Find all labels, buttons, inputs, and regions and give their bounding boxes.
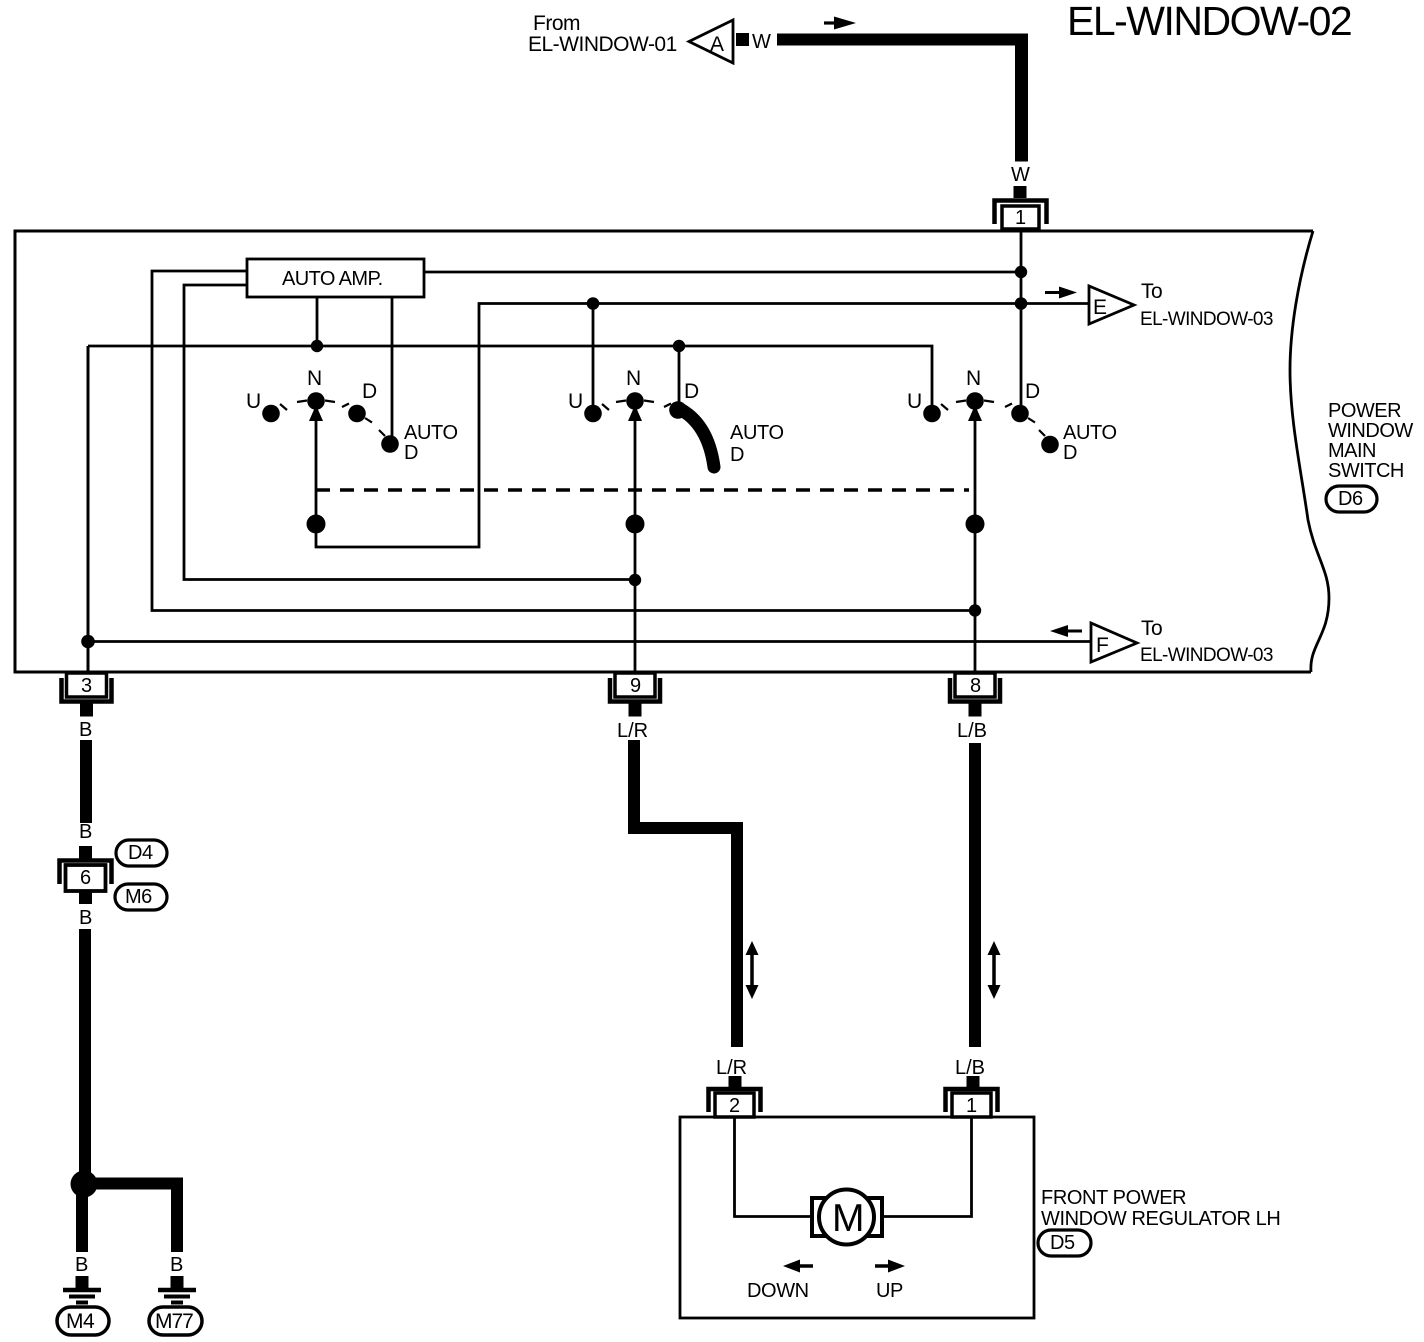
wire L/B (conn8 down to regulator conn1) [969,743,981,1047]
svg-text:D6: D6 [1338,488,1363,510]
junction dot bus346/auto-amp [311,340,323,352]
junction dot left vertical/y641 [81,635,95,649]
ground ref M4 [57,1307,109,1335]
svg-text:EL-WINDOW-01: EL-WINDOW-01 [528,33,677,56]
wire left vertical from bus down to connector 3 [87,346,90,673]
switch 2 pivot dot [626,515,645,534]
junction dot switch3 common/y610 [969,604,981,616]
svg-text:M4: M4 [66,1310,95,1333]
front power window regulator box [680,1117,1034,1318]
svg-text:W: W [1011,164,1030,186]
svg-text:WINDOW REGULATOR LH: WINDOW REGULATOR LH [1041,1208,1280,1230]
junction dot E-line/switch2-U [587,297,600,310]
switch 1 pivot dot [307,515,326,534]
svg-text:AUTO AMP.: AUTO AMP. [282,268,383,290]
svg-text:D: D [362,380,377,403]
svg-text:D: D [1025,380,1040,403]
ground M4 [63,1276,101,1303]
svg-text:B: B [79,719,92,741]
svg-text:2: 2 [729,1095,740,1117]
ground ref M77 [149,1307,202,1335]
connector 1 (power window main switch pin 1) [995,201,1047,225]
svg-text:AUTO: AUTO [404,422,458,444]
svg-text:F: F [1096,634,1109,657]
svg-text:D: D [404,442,418,464]
wire B splice right branch to M77 [92,1178,183,1190]
svg-text:FRONT POWER: FRONT POWER [1041,1187,1186,1209]
switch 3 (passenger window) [907,367,1117,464]
svg-text:AUTO: AUTO [1063,422,1117,444]
connector 8 (main switch pin 8) [950,673,1000,717]
connector ref D6 [1326,486,1377,512]
svg-text:N: N [626,367,641,390]
svg-text:8: 8 [970,675,981,697]
connector triangle A (from EL-WINDOW-01) [689,20,733,63]
svg-text:3: 3 [81,675,92,697]
svg-text:From: From [533,12,580,35]
svg-text:W: W [752,31,771,53]
svg-text:N: N [966,367,981,390]
wire switch 3 common down to connector 8 [974,412,977,673]
junction dot auto-amp/conn1 [1015,266,1027,278]
wire W (thick) from A to connector 1 [777,34,1028,46]
junction dot switch2 common/y579 [629,574,641,586]
svg-text:U: U [568,390,583,413]
junction dot bus346/switch2-D [673,340,685,352]
arrow (direction) at E [1045,291,1061,294]
connector ref M6 [115,884,167,910]
connector 3 (main switch pin 3) [62,673,112,717]
svg-text:B: B [79,821,92,843]
svg-text:EL-WINDOW-02: EL-WINDOW-02 [1067,0,1351,44]
svg-text:9: 9 [630,675,641,697]
svg-text:DOWN: DOWN [747,1280,809,1302]
arrow DOWN [747,1260,813,1303]
svg-text:M: M [832,1197,865,1240]
arrow (direction) at F [1066,630,1082,633]
svg-text:B: B [170,1254,183,1276]
svg-text:L/B: L/B [957,720,987,742]
auto amp box U1 [247,259,424,297]
wire B splice to M4 ground [76,1195,88,1252]
wire conn1 to motor [882,1117,972,1217]
wire switch1 common to E / switch2-U / conn1 node [316,304,1089,548]
svg-text:UP: UP [876,1280,903,1302]
svg-text:EL-WINDOW-03: EL-WINDOW-03 [1140,309,1273,330]
svg-text:L/B: L/B [955,1057,985,1079]
svg-text:POWER: POWER [1328,400,1401,422]
wire auto amp left upper, down and across to switch 3 common [152,271,975,611]
wire L/R (conn9 jog down to regulator conn2) [634,740,737,1047]
svg-text:1: 1 [966,1095,977,1117]
svg-text:N: N [307,367,322,390]
double arrow (window movement) L/R [746,941,759,999]
svg-text:AUTO: AUTO [730,422,784,444]
connector ref D5 [1038,1230,1091,1256]
wire y=641 to triangle F [88,640,1091,643]
mechanical link dashed line [316,488,969,492]
switch 3 pivot dot [966,515,985,534]
connector triangle E to EL-WINDOW-03 [1089,286,1134,324]
splice dot [71,1171,98,1198]
switch 2 (shown in AUTO-D position, thick wiper arc) [568,367,784,467]
svg-text:D: D [730,444,744,466]
connector 6 stub top [79,846,92,859]
svg-text:WINDOW: WINDOW [1328,420,1413,442]
wire auto amp bottom to bus y=346 [316,297,319,346]
connector 1 (regulator pin 1) [946,1076,998,1117]
switch 1 (driver window) [246,367,458,464]
connector ref D4 [116,840,167,866]
svg-text:D: D [1063,442,1077,464]
svg-text:EL-WINDOW-03: EL-WINDOW-03 [1140,645,1273,666]
svg-text:L/R: L/R [617,720,648,742]
connector 9 (main switch pin 9) [610,673,660,717]
svg-text:1: 1 [1015,207,1026,229]
connector 6 (D4/M6 junction) [60,861,112,905]
svg-text:D5: D5 [1050,1232,1075,1254]
wire switch 2 common down to connector 9 [634,412,637,673]
junction dot E-line/conn1 [1015,297,1028,310]
svg-text:6: 6 [80,867,91,889]
svg-text:To: To [1141,617,1162,640]
arrow UP [875,1260,905,1303]
arrow (direction) on wire W [824,21,838,24]
wire auto amp bottom to switch1 AUTO D contact [391,297,394,444]
wire B (conn6 down to splice) [79,929,91,1174]
wire switch 2 U contact drop [592,304,595,415]
ground M77 [158,1276,196,1303]
wire bus y=346 from left vertical to switch 3 U contact [88,346,932,414]
motor M [812,1190,882,1245]
svg-text:U: U [907,390,922,413]
svg-text:M6: M6 [125,886,152,908]
double arrow (window movement) L/B [988,941,1001,999]
wire switch 2 D contact drop [678,346,681,405]
connector 1 terminal stub [1014,186,1027,198]
wire connector 1 down to switch 3 D contact [1020,232,1023,406]
svg-text:MAIN: MAIN [1328,440,1376,462]
svg-text:SWITCH: SWITCH [1328,460,1404,482]
wire auto amp left lower, down and across to switch 2 common [184,285,635,580]
connector 2 (regulator pin 2) [709,1076,761,1117]
svg-text:B: B [79,907,92,929]
svg-text:A: A [710,33,724,56]
connector triangle F to EL-WINDOW-03 [1091,623,1137,662]
wire auto amp right to connector-1 line [424,271,1021,274]
wire conn2 to motor [735,1117,813,1217]
svg-text:L/R: L/R [716,1057,747,1079]
svg-text:B: B [75,1254,88,1276]
svg-text:To: To [1141,280,1162,303]
svg-text:D: D [684,380,699,403]
svg-text:E: E [1093,296,1107,319]
svg-text:D4: D4 [128,842,153,864]
svg-text:M77: M77 [155,1310,193,1333]
wire B (conn3 down) [80,740,92,823]
power window main switch box outline (torn right edge) [15,231,1313,672]
svg-text:U: U [246,390,261,413]
